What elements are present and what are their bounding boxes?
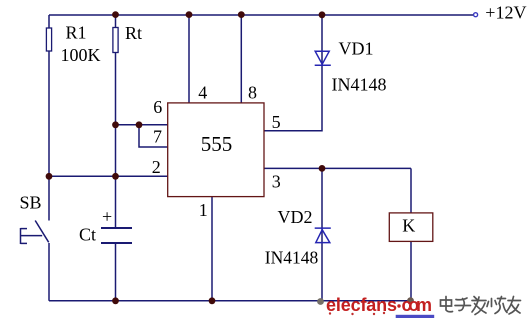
- svg-text:VD2: VD2: [278, 207, 313, 227]
- svg-text:elecfans: elecfans: [326, 295, 397, 315]
- svg-text:IN4148: IN4148: [332, 75, 387, 95]
- svg-text:2: 2: [152, 157, 161, 177]
- svg-text:Rt: Rt: [125, 23, 142, 43]
- svg-text:100K: 100K: [61, 45, 101, 65]
- svg-text:Ct: Ct: [79, 224, 96, 244]
- svg-text:VD1: VD1: [339, 39, 374, 59]
- svg-text:1: 1: [199, 200, 208, 220]
- svg-text:SB: SB: [20, 193, 42, 213]
- svg-text:com: com: [402, 295, 433, 315]
- svg-text:7: 7: [153, 127, 162, 147]
- svg-text:+12V: +12V: [485, 2, 526, 22]
- svg-text:+: +: [102, 207, 112, 227]
- svg-text:K: K: [402, 216, 415, 236]
- svg-text:4: 4: [198, 83, 207, 103]
- svg-text:3: 3: [272, 171, 281, 191]
- svg-text:R1: R1: [66, 23, 87, 43]
- svg-text:555: 555: [201, 132, 233, 156]
- svg-text:5: 5: [272, 112, 281, 132]
- svg-text:IN4148: IN4148: [265, 247, 319, 267]
- svg-text:6: 6: [153, 97, 162, 117]
- svg-text:8: 8: [248, 83, 257, 103]
